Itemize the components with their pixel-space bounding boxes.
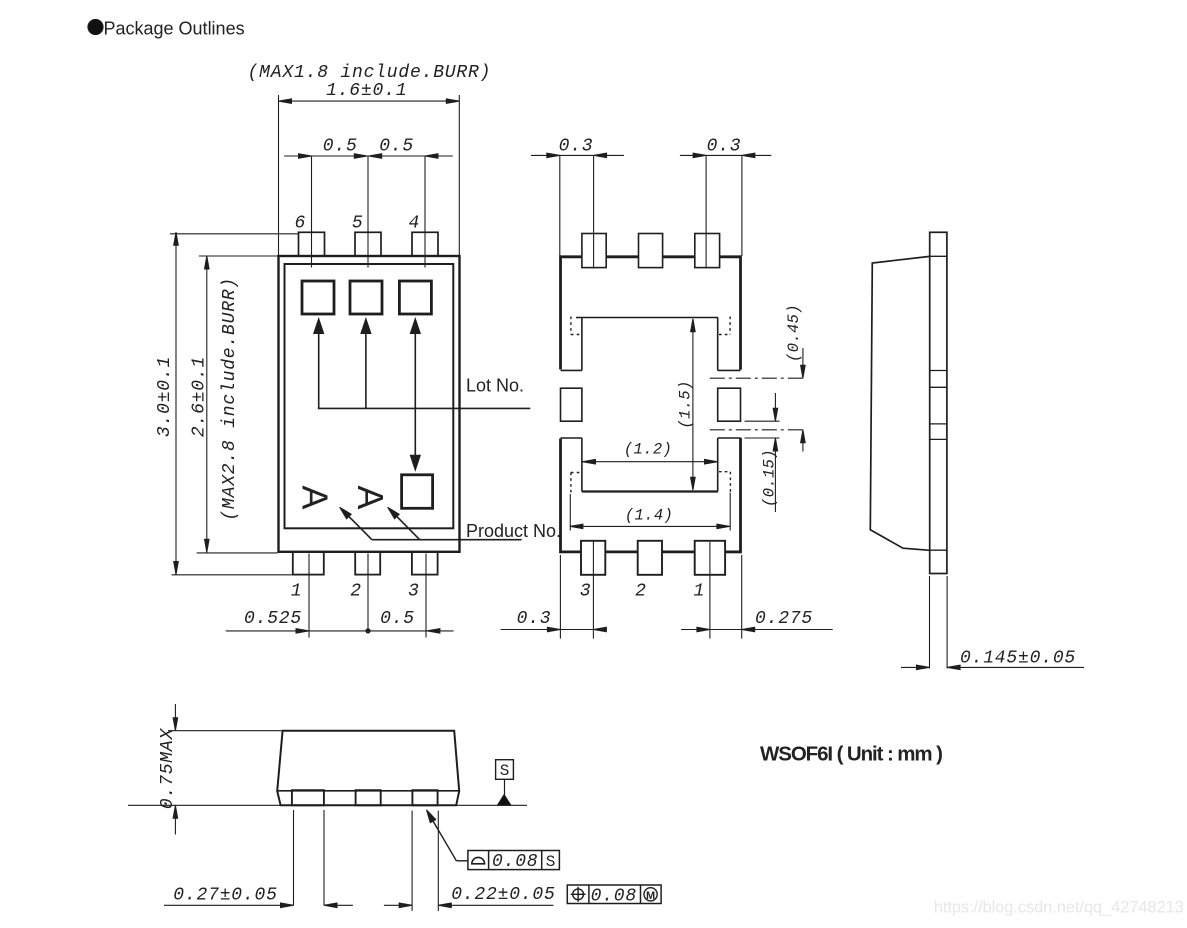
elevation shoulder line (277, 790, 459, 792)
lot/product double arrow (414, 330, 416, 459)
ext 0.27 left (293, 810, 295, 906)
svg-text:A: A (350, 485, 391, 509)
center line lower (710, 429, 805, 431)
inner pad bottom line (582, 490, 718, 492)
svg-text:2.6±0.1: 2.6±0.1 (189, 356, 209, 437)
ext 0.145 left (929, 576, 931, 669)
dim line 0.3 bottom (501, 629, 605, 631)
dim line 2.6 (206, 256, 208, 552)
pad L2 (561, 388, 582, 421)
pad L1 (581, 318, 583, 371)
fcf1 frame (468, 851, 560, 870)
bottom view pin 3 (581, 541, 605, 575)
ext line bv left edge bottom (559, 555, 561, 639)
top view pin 1 (293, 552, 324, 575)
product marking square (402, 475, 433, 509)
top view pin 2 (355, 552, 380, 575)
lot leader line (318, 407, 531, 409)
ext (1.4) left (569, 494, 571, 531)
hidden bracket BL (570, 473, 572, 494)
ext line bv right edge bottom (741, 555, 743, 639)
svg-text:M: M (646, 890, 655, 902)
svg-text:0.5: 0.5 (379, 137, 414, 157)
ext 0.22 right (437, 811, 439, 911)
svg-text:https://blog.csdn.net/qq_42748: https://blog.csdn.net/qq_42748213 (934, 899, 1184, 917)
elevation pin 2 (356, 790, 381, 805)
svg-text:Product No.: Product No. (466, 521, 561, 541)
dim line 0.3 top-left (531, 154, 624, 156)
ext line pin5 center (367, 156, 369, 268)
elevation body (277, 731, 459, 806)
svg-text:2: 2 (350, 582, 362, 602)
svg-text:0.27±0.05: 0.27±0.05 (173, 886, 277, 906)
lot arrow 1 (318, 330, 320, 408)
elevation pin 1 (292, 790, 324, 805)
ext line pin2 center (367, 554, 369, 634)
svg-text:(1.4): (1.4) (625, 507, 673, 525)
svg-text:0.525: 0.525 (244, 609, 302, 629)
svg-text:0.08: 0.08 (492, 852, 538, 872)
svg-text:(1.2): (1.2) (624, 441, 672, 459)
svg-text:0.275: 0.275 (755, 609, 813, 629)
svg-text:0.3: 0.3 (707, 137, 742, 157)
lot marking square 2 (350, 281, 382, 314)
dim (1.5) (692, 321, 694, 489)
bottom view pin 1 (695, 541, 725, 575)
svg-text:0.5: 0.5 (380, 609, 415, 629)
bottom view pin top-right (695, 234, 720, 268)
dim line 0.145 (901, 666, 930, 668)
ext 0.27 right (323, 810, 325, 906)
pad L3 (581, 438, 583, 492)
dim line 0.22 (384, 904, 412, 906)
pad R3 (717, 438, 719, 492)
svg-text:S: S (546, 853, 556, 871)
dim line 0.275 (681, 629, 833, 631)
svg-text:(MAX1.8 include.BURR): (MAX1.8 include.BURR) (248, 63, 492, 83)
svg-text:0.75MAX: 0.75MAX (158, 727, 178, 809)
title bullet (88, 19, 103, 34)
dim line 0.5 0.5 (284, 155, 453, 157)
ext line body left top (278, 95, 280, 256)
svg-text:0.5: 0.5 (323, 137, 358, 157)
product leader 2 (391, 511, 420, 540)
hidden bracket TR (729, 317, 731, 335)
dim line 3.0 (175, 232, 177, 574)
pad R1 (717, 318, 719, 371)
ext line bv pin3 center (592, 540, 594, 639)
dim (0.15) (774, 393, 776, 421)
ext 0.145 right (946, 576, 948, 669)
top view body outer (279, 256, 460, 552)
ext line pin3 center (425, 554, 427, 638)
side view strip divisions (930, 255, 947, 257)
inner pad top line (576, 317, 718, 319)
ext line bv pin6 center (705, 155, 707, 267)
top view body inner (285, 264, 454, 528)
dim 0.75MAX (174, 704, 176, 731)
hidden bracket TL (570, 317, 572, 335)
svg-text:(0.15): (0.15) (761, 449, 779, 507)
ext line bv right edge (741, 155, 743, 256)
svg-text:0.08: 0.08 (591, 886, 637, 906)
ext line pin1 center (308, 554, 310, 638)
ext line body top left (199, 255, 279, 257)
side view body (870, 256, 929, 550)
dim line 0.3 top-right (680, 154, 771, 156)
svg-text:(MAX2.8 include.BURR): (MAX2.8 include.BURR) (220, 277, 240, 521)
svg-text:Package Outlines: Package Outlines (104, 18, 245, 38)
svg-text:3: 3 (580, 582, 592, 602)
fcf1 symbol profile-of-line (472, 857, 485, 863)
product leader 1 (343, 511, 372, 540)
top view pin 5 (355, 232, 381, 256)
dim (1.2) (583, 461, 718, 463)
side view lead strip (930, 232, 947, 573)
lot marking square 1 (302, 281, 334, 314)
fcf2 symbol M circle (644, 888, 657, 901)
svg-text:6: 6 (294, 214, 306, 234)
svg-text:0.145±0.05: 0.145±0.05 (960, 649, 1076, 669)
bottom view pin 2 (638, 541, 662, 575)
product leader line (372, 539, 522, 541)
seating plane line (128, 804, 527, 806)
ext 0.22 left (411, 811, 413, 911)
svg-text:S: S (500, 762, 510, 780)
ext (1.4) right (729, 493, 731, 531)
svg-text:WSOF6I ( Unit : mm ): WSOF6I ( Unit : mm ) (760, 743, 942, 766)
svg-text:0.3: 0.3 (559, 137, 594, 157)
svg-text:Lot No.: Lot No. (466, 375, 524, 395)
dim (0.45) (802, 348, 804, 378)
pad R2 (718, 388, 741, 421)
fcf1 leader (429, 815, 456, 861)
ext line bv pin1 center (709, 542, 711, 639)
datum S box (496, 760, 514, 780)
svg-text:A: A (295, 485, 336, 509)
bottom view top edge (561, 255, 582, 258)
svg-text:0.3: 0.3 (517, 609, 552, 629)
lot marking square 3 (399, 281, 431, 314)
svg-text:3: 3 (408, 582, 420, 602)
ext line body bottom left (197, 552, 278, 554)
bottom view left edge (559, 255, 562, 369)
ext (0.15) upper (745, 420, 780, 422)
ext line body right top (458, 95, 460, 256)
top view pin 6 (299, 232, 325, 256)
ext line pins top (170, 233, 299, 235)
svg-text:1: 1 (291, 582, 303, 602)
top view pin 3 (412, 552, 438, 575)
bottom view bottom edge (561, 551, 582, 554)
dim line 0.525/0.5 (226, 630, 454, 632)
ext line pin4 center (424, 156, 426, 268)
bottom view right edge (739, 255, 742, 369)
center line upper (710, 377, 805, 379)
ext 0.75 top (168, 730, 282, 732)
bottom view pin top-left (582, 234, 606, 268)
dim (1.4) (570, 525, 730, 527)
bottom view pin top-mid (639, 234, 663, 268)
elevation pin 3 (412, 790, 437, 805)
svg-text:(1.5): (1.5) (677, 380, 695, 428)
svg-text:4: 4 (408, 214, 420, 234)
svg-text:2: 2 (635, 582, 647, 602)
top view pin 4 (412, 232, 438, 256)
hidden bracket BR (729, 472, 731, 493)
lot arrow 2 (365, 330, 367, 408)
dim line 0.27 (164, 904, 294, 906)
svg-text:1.6±0.1: 1.6±0.1 (326, 81, 407, 101)
ext line pins bottom (172, 574, 293, 576)
dim line 1.6 (279, 100, 460, 102)
datum S stem (504, 779, 506, 795)
fcf2 frame (567, 885, 661, 904)
datum S triangle (497, 795, 511, 806)
svg-text:1: 1 (693, 582, 705, 602)
fcf2 symbol position (573, 889, 584, 900)
svg-text:(0.45): (0.45) (785, 304, 803, 362)
svg-text:3.0±0.1: 3.0±0.1 (155, 356, 175, 437)
svg-text:5: 5 (352, 214, 364, 234)
ext line bv left edge (559, 155, 561, 256)
ext line bv pin4 center (593, 155, 595, 267)
svg-text:0.22±0.05: 0.22±0.05 (451, 885, 555, 905)
ext line pin6 center (311, 156, 313, 268)
ext (0.15) lower (745, 437, 780, 439)
